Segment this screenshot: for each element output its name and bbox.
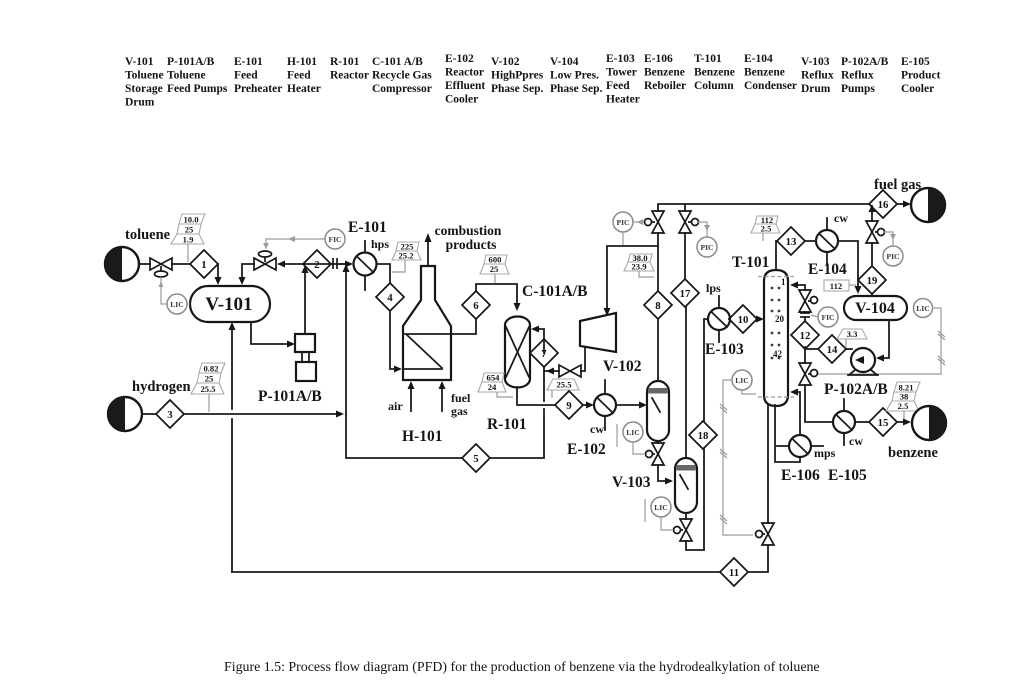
heat exchanger E-106 <box>777 435 836 484</box>
control valve stream 19 <box>866 221 885 243</box>
controller LIC V-101 <box>159 277 191 314</box>
wire into E-101 <box>340 263 347 265</box>
feed symbol hydrogen <box>108 379 191 431</box>
wire 8 to header junction <box>657 233 659 291</box>
control valve toluene feed <box>150 258 172 277</box>
stream flag R-101 outlet (654/24) <box>478 373 513 398</box>
stream diamond 5 <box>462 444 490 472</box>
svg-text:42: 42 <box>773 349 783 359</box>
vessel V-103 vapor stream 17 wire <box>685 307 687 458</box>
svg-text:1: 1 <box>201 259 206 271</box>
wire 11 to bottoms valve <box>748 545 768 572</box>
svg-text:air: air <box>388 399 403 413</box>
wire valve to stream 1 <box>172 263 190 265</box>
svg-text:6: 6 <box>473 300 479 312</box>
wire valve 19 to header <box>871 210 873 221</box>
svg-text:4: 4 <box>387 292 393 304</box>
heat exchanger E-104 <box>808 211 848 278</box>
vessel V-104 <box>844 296 907 320</box>
svg-text:cw: cw <box>590 422 604 436</box>
stream flag [112] <box>824 280 856 291</box>
equipment list header <box>125 53 941 109</box>
compressor C-101 <box>580 313 616 352</box>
svg-text:lps: lps <box>706 281 721 295</box>
svg-text:V-104: V-104 <box>855 300 895 317</box>
svg-text:2.5: 2.5 <box>761 224 772 234</box>
wire V-102 vapor stream 8 <box>657 319 659 381</box>
stream diamond 14 <box>818 335 846 363</box>
wire 6 to reactor <box>476 284 517 304</box>
wire 18 to E-103 <box>704 319 708 421</box>
wire 4 down to furnace inlet <box>390 311 395 369</box>
stream diamond 16 <box>869 190 897 218</box>
stream diamond 10 <box>729 305 757 333</box>
svg-text:1.9: 1.9 <box>183 235 194 245</box>
stream diamond 4 <box>376 283 404 311</box>
svg-text:mps: mps <box>814 446 836 460</box>
svg-text:1: 1 <box>781 277 786 287</box>
controller LIC V-102 <box>617 422 644 454</box>
svg-text:cw: cw <box>849 434 863 448</box>
wire hydrogen to stream 3 <box>142 413 156 415</box>
wire column bottoms <box>767 405 769 523</box>
svg-text:LIC: LIC <box>735 376 749 385</box>
svg-text:2.5: 2.5 <box>898 401 909 411</box>
svg-text:combustion: combustion <box>435 223 502 238</box>
svg-text:19: 19 <box>867 275 878 287</box>
svg-text:V-102: V-102 <box>603 358 642 375</box>
svg-text:E-103: E-103 <box>705 341 744 358</box>
stream diamond 18 <box>689 421 717 449</box>
wire valve to compressor outlet <box>554 348 585 371</box>
svg-text:17: 17 <box>680 288 691 300</box>
svg-text:15: 15 <box>878 417 889 429</box>
svg-text:E-106BenzeneReboiler: E-106BenzeneReboiler <box>644 53 686 92</box>
wire pump discharge junction to valve <box>284 263 305 265</box>
vessel V-101 <box>190 286 270 322</box>
wire 13 to E-104 <box>805 240 816 242</box>
stream flag 13 (112/2.5) <box>751 215 780 241</box>
svg-text:V-103: V-103 <box>612 474 651 491</box>
wire furnace outlet stream 6 <box>451 319 476 334</box>
svg-text:E-101FeedPreheater: E-101FeedPreheater <box>234 56 282 95</box>
stream diamond 7 <box>530 339 558 367</box>
svg-text:fuel: fuel <box>451 391 471 405</box>
vessel outlet V-101 to pump <box>251 322 288 344</box>
wire product draw down <box>804 349 806 363</box>
svg-text:P-102A/B: P-102A/B <box>824 381 888 398</box>
controller PIC 2 <box>697 222 717 257</box>
svg-text:FIC: FIC <box>328 235 341 244</box>
svg-text:23.9: 23.9 <box>631 262 646 272</box>
reactor R-101 <box>487 317 530 434</box>
svg-text:25: 25 <box>205 374 214 384</box>
svg-text:benzene: benzene <box>888 445 939 461</box>
wire E-101 to H-101 <box>377 264 391 283</box>
svg-text:18: 18 <box>698 430 709 442</box>
wire recycle riser x346 <box>345 268 347 414</box>
stream diamond 13 <box>777 227 805 255</box>
wire compressor inlet <box>607 246 658 309</box>
stream diamond 11 <box>720 558 748 586</box>
svg-text:25.2: 25.2 <box>398 251 413 261</box>
wire E-103 to stream 10 <box>729 318 730 320</box>
svg-text:E-104BenzeneCondenser: E-104BenzeneCondenser <box>744 53 797 92</box>
svg-text:V-101TolueneStorageDrum: V-101TolueneStorageDrum <box>125 56 164 109</box>
wire recycle toluene x232 <box>231 419 233 572</box>
svg-text:16: 16 <box>878 199 889 211</box>
heat exchanger E-103 <box>705 281 744 358</box>
wire pump discharge to reflux/product junction <box>846 348 852 350</box>
svg-text:FIC: FIC <box>821 313 834 322</box>
wire orifice to valve <box>804 312 806 313</box>
svg-text:5: 5 <box>473 453 478 465</box>
svg-text:11: 11 <box>729 567 739 579</box>
svg-text:LIC: LIC <box>916 304 930 313</box>
svg-text:25.5: 25.5 <box>556 380 571 390</box>
svg-text:V-103RefluxDrum: V-103RefluxDrum <box>801 56 834 95</box>
combustion products stack <box>425 223 502 266</box>
svg-text:LIC: LIC <box>170 300 184 309</box>
stream flag hps (225/25.2) <box>392 242 421 273</box>
wire reflux into column <box>796 285 805 290</box>
svg-text:V-102HighPpresPhase Sep.: V-102HighPpresPhase Sep. <box>491 56 544 95</box>
svg-text:E-105ProductCooler: E-105ProductCooler <box>901 56 941 95</box>
wire quench into reactor <box>536 329 544 353</box>
controller PIC 3 <box>883 232 903 266</box>
svg-text:H-101: H-101 <box>402 428 442 445</box>
svg-text:V-101: V-101 <box>205 294 252 315</box>
heat exchanger E-102 <box>567 380 616 458</box>
wire x544 above crossing <box>543 371 545 401</box>
svg-text:H-101FeedHeater: H-101FeedHeater <box>287 56 321 95</box>
svg-text:LIC: LIC <box>626 428 640 437</box>
svg-text:25.5: 25.5 <box>200 384 215 394</box>
svg-text:13: 13 <box>786 236 797 248</box>
stream flag 1 (10.0/25/1.9) <box>171 214 205 262</box>
feed symbol toluene <box>105 227 171 281</box>
control valve stream 17 <box>679 211 699 233</box>
stream flag 3 (0.82/25/25.5) <box>191 363 225 412</box>
svg-text:7: 7 <box>541 348 547 360</box>
svg-text:hydrogen: hydrogen <box>132 379 191 395</box>
wire recycle gas stream 5 <box>346 414 462 458</box>
wire valve to E-105 <box>805 385 833 422</box>
product symbol fuel gas <box>874 177 945 222</box>
svg-text:E-101: E-101 <box>348 219 387 236</box>
vessel V-103 <box>612 458 697 513</box>
wire 9 to E-102 <box>583 404 588 406</box>
wire 7 to valve junction <box>544 367 551 371</box>
svg-text:20: 20 <box>775 314 785 324</box>
svg-text:Figure 1.5: Process flow diag: Figure 1.5: Process flow diagram (PFD) f… <box>224 660 820 675</box>
stream diamond 15 <box>869 408 897 436</box>
svg-text:10: 10 <box>738 314 749 326</box>
svg-text:PIC: PIC <box>886 252 899 261</box>
svg-text:600: 600 <box>489 255 502 265</box>
svg-text:R-101: R-101 <box>487 416 527 433</box>
svg-text:9: 9 <box>566 400 572 412</box>
svg-text:8: 8 <box>655 300 661 312</box>
wire E-104 to V-104 <box>838 241 858 287</box>
stream diamond 12 <box>791 321 819 349</box>
stream diamond 9 <box>555 391 583 419</box>
control valve bottoms <box>756 523 775 545</box>
svg-text:PIC: PIC <box>616 218 629 227</box>
svg-text:P-102A/BRefluxPumps: P-102A/BRefluxPumps <box>841 56 889 95</box>
svg-text:P-101A/BTolueneFeed Pumps: P-101A/BTolueneFeed Pumps <box>167 56 228 95</box>
svg-text:24: 24 <box>488 382 497 392</box>
wire 12 to orifice <box>804 318 806 321</box>
svg-text:LIC: LIC <box>654 503 668 512</box>
stream diamond 17 <box>671 279 699 307</box>
wire 15 to benzene <box>897 421 904 423</box>
stream diamond 19 <box>858 266 886 294</box>
svg-text:25: 25 <box>490 264 499 274</box>
svg-text:P-101A/B: P-101A/B <box>258 388 322 405</box>
svg-text:T-101: T-101 <box>732 254 769 271</box>
air line <box>388 381 415 413</box>
wire valve17 to header <box>684 204 686 211</box>
wire 14 to junction <box>805 348 818 350</box>
stream diamond 8 <box>644 291 672 319</box>
stream flag 15 (8.21/38/2.5) <box>886 382 920 420</box>
controller LIC column <box>720 370 756 535</box>
svg-text:654: 654 <box>487 373 501 383</box>
wire 17 to valve <box>684 233 686 279</box>
vessel V-102 <box>603 358 669 441</box>
svg-text:3.3: 3.3 <box>847 329 858 339</box>
wire valve8 to fuel header <box>658 204 869 211</box>
svg-text:V-104Low Pres.Phase Sep.: V-104Low Pres.Phase Sep. <box>550 56 603 95</box>
wire 19 to valve <box>871 243 873 296</box>
wire 16 to fuel gas <box>897 203 904 205</box>
control valve stream 8 <box>645 211 665 233</box>
svg-text:E-106: E-106 <box>781 467 820 484</box>
wire V-104 bottoms to pump <box>879 320 889 358</box>
wire 10 into column <box>757 318 758 320</box>
heat exchanger E-105 <box>828 399 867 484</box>
svg-text:C-101A/B: C-101A/B <box>522 283 587 300</box>
control valve product <box>799 363 818 385</box>
wire V-102 bottoms to V-103 <box>657 441 659 443</box>
pump P-102A/B <box>824 348 888 398</box>
svg-text:E-102: E-102 <box>567 441 606 458</box>
svg-text:E-103TowerFeedHeater: E-103TowerFeedHeater <box>606 53 640 106</box>
wire reflux riser <box>804 347 806 349</box>
column T-101 <box>732 254 794 406</box>
stream flag 6 (600/25) <box>480 255 509 284</box>
wire reboiler liquid <box>775 405 800 462</box>
svg-text:2: 2 <box>314 259 319 271</box>
svg-text:hps: hps <box>371 237 389 251</box>
wire column overhead stream 13 <box>776 241 777 270</box>
controller PIC 1 <box>613 212 644 245</box>
svg-text:14: 14 <box>827 344 838 356</box>
svg-text:112: 112 <box>830 281 842 291</box>
fuel gas line <box>439 381 471 418</box>
control valve V-101 inlet (recirc) <box>254 251 276 270</box>
controller FIC <box>263 229 345 249</box>
svg-text:T-101BenzeneColumn: T-101BenzeneColumn <box>694 53 735 92</box>
control valve reflux <box>799 290 818 312</box>
orifice FT stream 2 <box>333 258 337 269</box>
valve compressor spillback <box>559 365 581 377</box>
wire 5 to compressor valve junction <box>490 409 544 458</box>
wire reboiler return <box>796 392 800 435</box>
wire recirc into V-101 <box>242 264 254 279</box>
controller FIC reflux <box>811 307 838 327</box>
svg-text:products: products <box>446 237 497 252</box>
controller LIC V-103 <box>645 497 672 530</box>
wire E-105 to stream 15 <box>855 421 869 423</box>
svg-text:cw: cw <box>834 211 848 225</box>
wire main line to stream 2 <box>305 263 345 265</box>
stream flag quench (25.5) <box>547 379 579 398</box>
product symbol benzene <box>888 406 946 461</box>
wire pump riser <box>304 271 306 334</box>
svg-text:0.82: 0.82 <box>203 364 218 374</box>
svg-text:E-104: E-104 <box>808 261 847 278</box>
wire toluene to valve <box>139 263 150 265</box>
wire E-102 to V-102 <box>616 404 641 406</box>
svg-text:12: 12 <box>800 330 811 342</box>
svg-text:25: 25 <box>185 225 194 235</box>
svg-text:C-101 A/BRecycle GasCompressor: C-101 A/BRecycle GasCompressor <box>372 56 432 95</box>
svg-text:toluene: toluene <box>125 227 171 243</box>
svg-text:R-101Reactor: R-101Reactor <box>330 56 369 82</box>
wire reactor outlet stream 9 <box>517 387 555 405</box>
control valve V-103 bottoms <box>674 519 693 541</box>
stream diamond 1 <box>190 250 218 278</box>
svg-text:gas: gas <box>451 404 468 418</box>
stream flag 14 (3.3) <box>837 329 867 348</box>
svg-text:E-102ReactorEffluentCooler: E-102ReactorEffluentCooler <box>445 53 485 106</box>
svg-text:38: 38 <box>900 392 909 402</box>
wire valve to V-103 inlet <box>658 465 666 481</box>
svg-text:fuel gas: fuel gas <box>874 177 921 193</box>
pump P-101A/B <box>258 334 322 405</box>
stream diamond 6 <box>462 291 490 319</box>
wire stream1 into V-101 <box>217 264 219 278</box>
heat exchanger E-101 <box>348 219 389 290</box>
orifice FT reflux <box>800 313 810 317</box>
control valve V-102 bottoms <box>646 443 665 465</box>
stream diamond 2 <box>303 250 331 278</box>
stream flag 8 (38.0/23.9) <box>624 253 654 277</box>
svg-text:E-105: E-105 <box>828 467 867 484</box>
svg-text:PIC: PIC <box>700 243 713 252</box>
wire recycle toluene y572 <box>232 571 720 573</box>
svg-text:3: 3 <box>167 409 173 421</box>
svg-text:10.0: 10.0 <box>183 215 198 225</box>
controller LIC V-104 <box>818 299 945 375</box>
wire V-103 bottoms <box>685 513 687 519</box>
wire hydrogen line <box>184 413 336 415</box>
wire V-103 bottoms to stream 18 riser <box>686 449 704 550</box>
furnace H-101 <box>402 266 451 445</box>
stream diamond 3 <box>156 400 184 428</box>
